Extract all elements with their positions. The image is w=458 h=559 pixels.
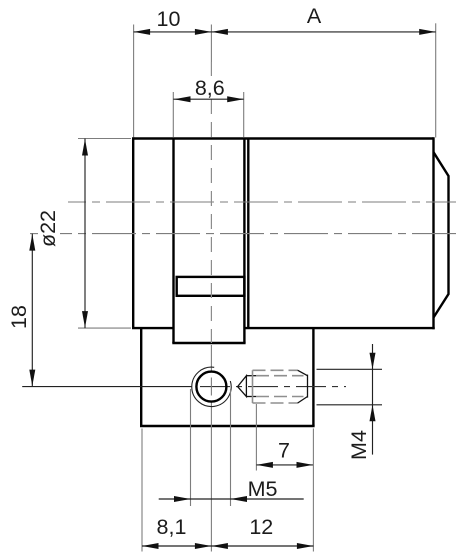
- dim M4 arrow down: [370, 353, 376, 370]
- dim 8,1 arrow left: [142, 543, 159, 549]
- set screw root hidden bottom: [256, 396, 304, 398]
- body top edge: [133, 137, 433, 139]
- dim 12 extension right: [312, 429, 314, 552]
- dim A line: [211, 31, 435, 33]
- svg-text:10: 10: [157, 7, 181, 31]
- dim 10 arrow left: [134, 29, 151, 35]
- svg-text:12: 12: [249, 515, 273, 539]
- lower block left edge: [140, 328, 142, 426]
- dim 8,6 arrow right: [227, 96, 244, 102]
- dim dia22 extension top: [78, 138, 131, 140]
- dim A extension line right: [435, 23, 437, 137]
- dim A arrow left: [211, 29, 228, 35]
- dim 10 arrow right: [195, 29, 212, 35]
- dim 18 arrow top: [29, 234, 35, 251]
- hole center line below circle: [210, 402, 212, 552]
- set screw crest hidden bottom: [253, 402, 299, 404]
- dim M5 arrow (outside left, pointing right): [174, 496, 191, 502]
- M5 hole circle: [196, 372, 226, 402]
- svg-text:7: 7: [278, 438, 290, 462]
- svg-text:M4: M4: [347, 430, 371, 460]
- set screw end chamfer bottom: [298, 397, 308, 404]
- set screw end face: [307, 375, 309, 398]
- hidden keyway line (dashed): [210, 62, 212, 76]
- set screw thread start hidden vertical: [252, 370, 254, 403]
- body left edge: [132, 137, 134, 328]
- set screw end chamfer top: [298, 370, 308, 375]
- dim 8,1 extension left: [141, 429, 143, 552]
- set screw crest hidden top: [253, 369, 299, 371]
- dim 18 arrow bottom: [29, 370, 35, 387]
- svg-text:8,1: 8,1: [157, 515, 187, 539]
- dim 10 line: [134, 31, 212, 33]
- dim M5 extension right: [230, 389, 232, 506]
- dim dia22 line: [84, 139, 86, 329]
- dim 18 line: [31, 234, 33, 387]
- dim M4 line: [372, 344, 374, 455]
- hole vertical center line top (extension of 10/A dim): [210, 25, 212, 63]
- set screw root hidden top: [256, 375, 304, 377]
- dim M4 arrow up: [370, 405, 376, 422]
- dim 8,1 arrow right: [195, 543, 212, 549]
- set screw body visible top: [246, 375, 256, 377]
- svg-text:M5: M5: [248, 477, 278, 501]
- svg-text:18: 18: [7, 305, 31, 329]
- center line lower (cylinder axis y=233.6): [30, 233, 38, 235]
- hidden keyway line below text: [210, 99, 212, 343]
- dim dia22 extension bottom: [78, 327, 131, 329]
- cylinder shoulder line: [247, 139, 249, 329]
- dim 18 leader line to screw center: [22, 386, 192, 388]
- dim dia22 arrow top: [82, 139, 88, 156]
- dim A arrow right: [419, 29, 436, 35]
- M5 thread arc: [192, 367, 231, 406]
- cam rectangle: [177, 277, 245, 296]
- dim 12 arrow right: [297, 543, 314, 549]
- chamfered tip: [434, 152, 449, 317]
- dim M5 leader line: [159, 498, 304, 500]
- body bottom edge left segment: [132, 327, 174, 329]
- dim M4 extension top: [317, 368, 383, 370]
- dim 7 arrow left: [256, 462, 273, 468]
- dim dia22 arrow bottom: [82, 311, 88, 328]
- hole center line inside circle: [210, 378, 212, 396]
- set screw body visible bottom: [246, 396, 256, 398]
- svg-text:8,6: 8,6: [195, 76, 225, 100]
- dim 7 arrow right: [297, 462, 314, 468]
- hole vertical center line bottom: [210, 345, 212, 372]
- dim 8,6 arrow left: [174, 96, 191, 102]
- dim 8,6 extension line left: [172, 92, 174, 137]
- svg-text:ø22: ø22: [36, 210, 60, 247]
- dim M5 arrow (outside right, pointing left): [231, 496, 248, 502]
- dim 10 extension line left: [133, 25, 135, 138]
- center line lower continued: [60, 233, 456, 235]
- body bottom edge right segment: [244, 327, 434, 329]
- lower block bottom edge: [140, 425, 315, 427]
- dim 8,1 and 12 line: [142, 545, 313, 547]
- plug bottom edge: [172, 342, 245, 344]
- dim 7 line: [256, 464, 313, 466]
- screw axis center line: [200, 386, 346, 388]
- dim M5 extension left: [190, 389, 192, 506]
- center line upper (y=202): [68, 201, 456, 203]
- plug left edge: [172, 139, 174, 344]
- plug right edge: [243, 139, 245, 344]
- set screw cone point: [238, 376, 247, 397]
- svg-text:A: A: [307, 4, 322, 28]
- body right edge: [432, 137, 434, 329]
- dim 12 arrow left: [211, 543, 228, 549]
- dim M4 extension bottom: [317, 404, 383, 406]
- dim 8,6 extension line right: [243, 92, 245, 137]
- dim 8,6 line: [173, 98, 243, 100]
- lower block right edge: [312, 328, 314, 426]
- dim 7 extension left: [255, 404, 257, 471]
